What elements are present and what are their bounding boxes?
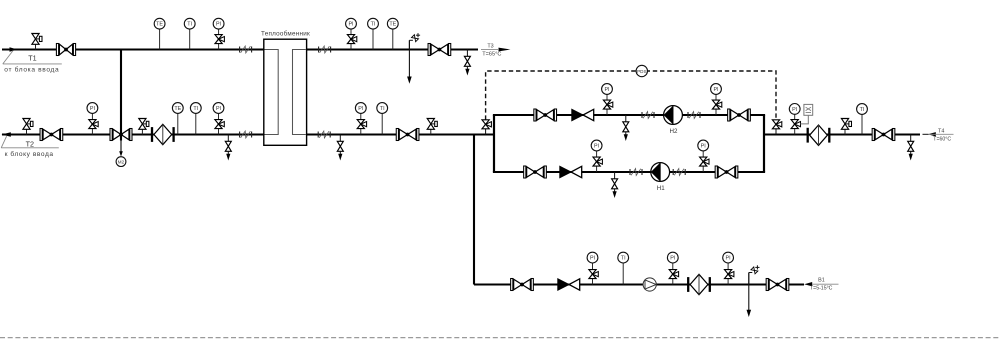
gate valve B1 inlet xyxy=(766,279,789,291)
pressure transmitter box xyxy=(800,104,812,124)
svg-text:TI: TI xyxy=(380,106,385,112)
drain with air valve on T3 line xyxy=(407,40,412,84)
thermometer TI on T2 xyxy=(190,103,201,135)
svg-text:PI: PI xyxy=(358,106,363,112)
svg-text:PI: PI xyxy=(348,22,353,28)
thermometer TI cold water xyxy=(618,252,629,284)
flex insert after exchanger top xyxy=(319,46,331,53)
flex insert after exchanger bottom xyxy=(318,131,330,138)
svg-text:Н2: Н2 xyxy=(670,128,678,135)
flex insert before pump H2 xyxy=(642,112,654,119)
svg-text:PI: PI xyxy=(90,106,95,112)
drain valve after exchanger xyxy=(337,135,343,161)
wire pump group top branch xyxy=(493,114,765,116)
drain valve after gate T3 xyxy=(464,50,470,76)
heat exchanger body xyxy=(264,39,307,145)
label B1 xyxy=(818,278,825,284)
actuator arrow and motor M2 xyxy=(116,141,126,167)
wire secondary from exchanger to pump group xyxy=(307,133,494,135)
drain valve pump H1 branch xyxy=(612,172,618,198)
manometer PI cold water 2 xyxy=(667,252,678,284)
wire pump group right riser xyxy=(763,115,765,172)
svg-text:TI: TI xyxy=(371,22,376,28)
label T4 underline xyxy=(929,133,954,135)
svg-text:PI: PI xyxy=(590,256,595,262)
svg-text:PI: PI xyxy=(216,106,221,112)
label B1 temperature xyxy=(810,286,833,292)
manometer PI outlet xyxy=(789,104,800,135)
svg-text:PDS: PDS xyxy=(637,69,646,74)
svg-text:М2: М2 xyxy=(118,160,125,165)
pressure differential switch PDS xyxy=(636,65,647,76)
flex insert after pump H1 xyxy=(673,169,685,176)
svg-text:Т2: Т2 xyxy=(26,140,34,149)
svg-text:TI: TI xyxy=(187,22,192,28)
check valve cold water xyxy=(558,279,580,290)
gate valve cold water xyxy=(511,279,534,291)
gate valve pump H1 discharge xyxy=(715,166,738,178)
label T4 link line xyxy=(923,133,929,135)
drain on cold water line xyxy=(747,273,752,318)
vent valve after control valve xyxy=(139,119,149,135)
wire cold water main xyxy=(474,283,804,285)
label T1 leader line xyxy=(3,51,62,64)
vent valve secondary xyxy=(427,119,437,135)
thermometer TI on T1 xyxy=(184,18,195,49)
water meter xyxy=(643,278,656,291)
flow arrow T1 inlet xyxy=(10,47,18,52)
manometer PI on T2 xyxy=(87,103,98,135)
wire T1 supply main xyxy=(2,48,264,50)
thermometer TI secondary xyxy=(377,103,388,135)
svg-text:Т=60°С: Т=60°С xyxy=(933,137,951,143)
thermometer TI T3 line xyxy=(368,18,379,49)
svg-text:PI: PI xyxy=(726,256,731,262)
gate valve pump H2 suction xyxy=(534,109,557,121)
wire pump group left riser xyxy=(493,115,495,172)
wire pump group bottom branch xyxy=(493,171,765,173)
svg-text:PI: PI xyxy=(216,22,221,28)
label T3 xyxy=(487,43,493,49)
flow arrow T3 outlet xyxy=(499,48,511,52)
vent valve outlet xyxy=(841,119,851,135)
manometer PI after pump H1 xyxy=(698,140,709,172)
svg-text:PI: PI xyxy=(792,107,797,113)
gate valve T3 line xyxy=(428,44,451,56)
manometer PI after pump H2 xyxy=(711,84,722,115)
manometer PI on T2 before exchanger xyxy=(213,103,224,135)
heat exchanger label xyxy=(261,30,310,38)
impulse line to pressure switch xyxy=(486,71,776,120)
control valve with actuator xyxy=(110,129,132,141)
svg-text:Т=5-15°С: Т=5-15°С xyxy=(810,286,833,292)
svg-text:Н1: Н1 xyxy=(657,185,665,192)
manometer PI T3 line xyxy=(346,18,357,49)
svg-text:Теплообменник: Теплообменник xyxy=(261,30,310,38)
manometer PI before pump H2 xyxy=(602,84,613,115)
pump H1 xyxy=(651,163,670,192)
drain valve T4 line xyxy=(908,135,914,161)
manometer PI before pump H1 xyxy=(591,140,602,172)
flow arrow T4 xyxy=(928,132,936,136)
svg-text:TI: TI xyxy=(860,107,865,113)
manometer PI secondary xyxy=(355,103,366,135)
thermometer TE on T1 xyxy=(154,18,165,49)
svg-text:PI: PI xyxy=(713,87,718,93)
label ot bloka vvoda xyxy=(4,66,59,74)
vent valve on T2 xyxy=(23,119,33,135)
gate valve secondary xyxy=(396,129,419,141)
svg-text:TE: TE xyxy=(156,22,163,28)
vent valve on T1 xyxy=(32,34,42,50)
svg-text:PI: PI xyxy=(604,87,609,93)
label k bloku vvoda xyxy=(5,150,54,158)
wire drop to cold water line xyxy=(473,135,475,285)
svg-text:PI: PI xyxy=(701,143,706,149)
label T4 temperature xyxy=(933,137,951,143)
svg-text:TE: TE xyxy=(389,22,396,28)
svg-text:TI: TI xyxy=(621,256,626,262)
check valve pump H1 xyxy=(560,166,582,177)
gate valve pump H2 discharge xyxy=(728,109,751,121)
filter cold water xyxy=(688,274,710,294)
air valve on T3 drain xyxy=(409,33,420,49)
gate valve T2 xyxy=(40,129,63,141)
impulse cock left xyxy=(482,120,491,135)
wire secondary after pump group xyxy=(764,133,920,135)
impulse cock right xyxy=(772,120,781,135)
check valve pump H2 xyxy=(572,109,594,120)
air valve cold water xyxy=(749,265,760,284)
svg-text:PI: PI xyxy=(594,143,599,149)
svg-text:В1: В1 xyxy=(818,278,825,284)
svg-text:TE: TE xyxy=(174,106,181,112)
svg-text:Т=65°С: Т=65°С xyxy=(482,51,501,57)
svg-text:Т1: Т1 xyxy=(28,54,36,63)
manometer PI on T1 xyxy=(213,18,224,49)
manometer PI cold water 1 xyxy=(587,252,598,284)
svg-text:Т3: Т3 xyxy=(487,43,493,49)
flow arrow T2 outlet xyxy=(1,132,10,137)
manometer PI cold water 3 xyxy=(723,252,734,284)
filter outlet xyxy=(808,125,830,145)
flow arrow B1 xyxy=(804,282,812,286)
svg-text:Т4: Т4 xyxy=(938,129,944,135)
pump H2 xyxy=(664,106,683,135)
thermometer TI outlet xyxy=(857,104,868,135)
svg-text:PI: PI xyxy=(670,256,675,262)
drain valve on T2 xyxy=(225,135,231,161)
flex insert before pump H1 xyxy=(630,169,642,176)
label T3 temperature xyxy=(482,51,501,57)
wire T1 after exchanger xyxy=(307,48,478,50)
label B1 underline xyxy=(812,283,838,285)
flex insert T2 xyxy=(240,131,252,138)
thermometer TE on T2 xyxy=(172,103,183,135)
wire T2 return main xyxy=(2,133,264,135)
wire bypass T1 to control valve xyxy=(120,50,122,141)
label T4 xyxy=(938,129,944,135)
flex insert after pump H2 xyxy=(688,112,700,119)
label T2 xyxy=(26,140,34,149)
drawing border dashed line xyxy=(0,337,1000,339)
thermometer TE T3 line xyxy=(387,18,398,49)
gate valve T4 outlet xyxy=(872,129,895,141)
gate valve pump H1 suction xyxy=(524,166,547,178)
label T3 underline xyxy=(481,48,499,50)
flex insert T1 xyxy=(240,46,252,53)
gate valve T1 xyxy=(56,44,75,56)
filter on T2 xyxy=(152,124,174,144)
svg-text:от блока ввода: от блока ввода xyxy=(4,66,59,74)
svg-text:TI: TI xyxy=(193,106,198,112)
label T1 xyxy=(28,54,36,63)
svg-text:к блоку ввода: к блоку ввода xyxy=(5,150,54,158)
drain valve pump H2 branch xyxy=(623,115,629,141)
label T2 leader line xyxy=(1,136,59,148)
